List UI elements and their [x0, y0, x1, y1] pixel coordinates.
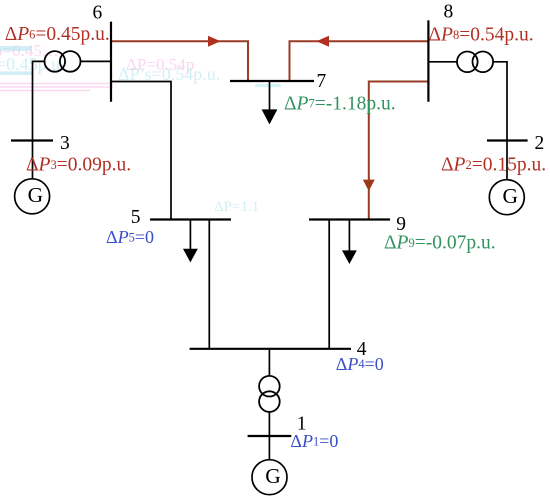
- svg-text:7: 7: [317, 71, 327, 92]
- svg-text:ΔP9=-0.07p.u.: ΔP9=-0.07p.u.: [384, 233, 496, 254]
- svg-text:G: G: [265, 464, 281, 488]
- svg-text:ΔP5=0: ΔP5=0: [106, 227, 154, 247]
- svg-text:ΔP4=0: ΔP4=0: [336, 354, 384, 374]
- svg-text:5: 5: [131, 207, 141, 228]
- svg-text:3: 3: [60, 133, 70, 154]
- svg-text:8: 8: [444, 2, 454, 23]
- svg-text:ΔP2=0.15p.u.: ΔP2=0.15p.u.: [441, 155, 546, 176]
- svg-text:ΔP6=0.45p.u.: ΔP6=0.45p.u.: [5, 24, 110, 45]
- svg-text:6: 6: [93, 3, 103, 24]
- svg-text:G: G: [28, 183, 44, 207]
- svg-text:ΔP3=0.09p.u.: ΔP3=0.09p.u.: [26, 155, 131, 176]
- svg-text:ΔP7=-1.18p.u.: ΔP7=-1.18p.u.: [284, 93, 396, 114]
- svg-text:ΔP=1.1: ΔP=1.1: [214, 199, 259, 215]
- svg-text:G: G: [503, 184, 519, 208]
- svg-text:ΔP1=0: ΔP1=0: [290, 431, 338, 451]
- svg-text:2: 2: [535, 133, 545, 154]
- svg-text:ΔP8=0.54p.u.: ΔP8=0.54p.u.: [429, 25, 534, 46]
